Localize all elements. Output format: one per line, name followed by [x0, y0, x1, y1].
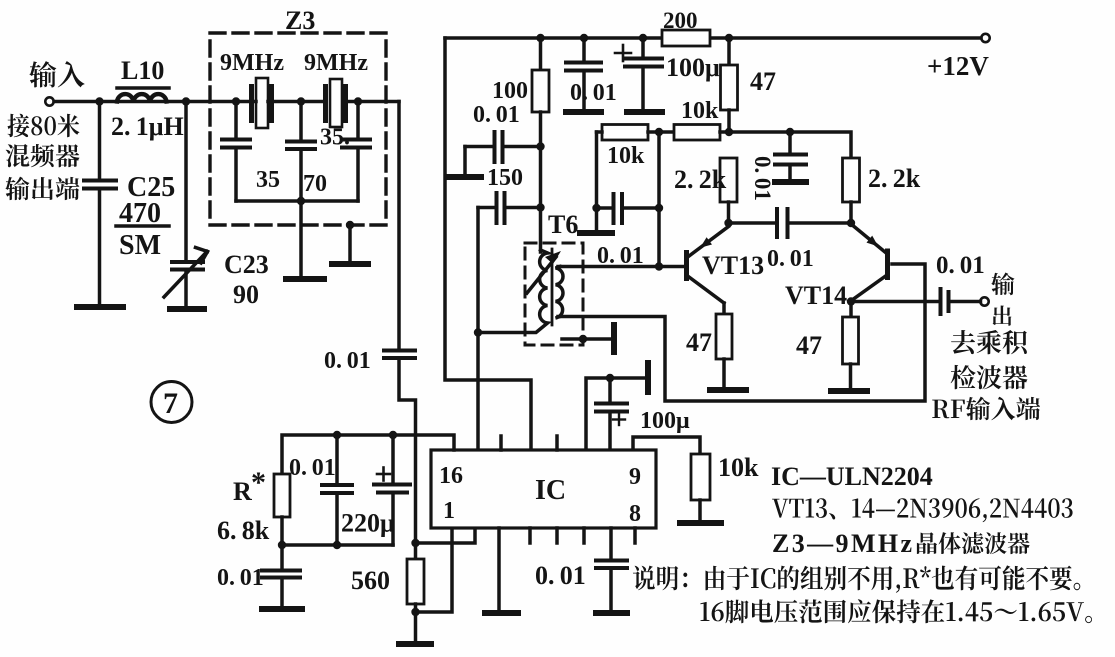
- capacitor 0.01 top shunt: [566, 38, 601, 110]
- svg-text:2. 2k: 2. 2k: [868, 164, 921, 193]
- ground capA: [447, 174, 481, 180]
- ground C25: [77, 304, 123, 310]
- pin stub top2: [555, 436, 559, 450]
- ground 560: [399, 641, 431, 647]
- wire secondary bottom loop to VT14 base: [558, 264, 925, 401]
- wire cap378 node: [586, 378, 645, 450]
- label VT13,14 line: [772, 498, 1073, 522]
- wire filter bottom to ground: [299, 201, 303, 277]
- node IN: input terminal: [45, 97, 53, 105]
- filter Z3 shield box: [210, 33, 386, 225]
- junction 560 bottom: [411, 608, 419, 616]
- resistor 100: [532, 38, 549, 252]
- junction 100/capA: [536, 142, 544, 150]
- svg-text:1: 1: [443, 498, 455, 524]
- ground 47 VT14: [831, 388, 867, 394]
- svg-text:8: 8: [629, 501, 641, 527]
- junction 10k node: [655, 128, 663, 136]
- svg-text:VT13: VT13: [702, 251, 764, 280]
- wire secondary top to VT13 base: [558, 265, 684, 269]
- svg-text:220μ: 220μ: [341, 509, 395, 538]
- capacitor 0.01 osc right: [597, 194, 660, 223]
- svg-text:T6: T6: [548, 210, 578, 239]
- svg-text:90: 90: [233, 280, 259, 309]
- fraction line 470/SM: [116, 224, 169, 228]
- capacitor 70 (middle): [287, 102, 315, 202]
- svg-text:0. 01: 0. 01: [535, 561, 586, 590]
- pin stub bottom3: [582, 528, 586, 543]
- wire bias column: [657, 132, 661, 267]
- svg-text:+12V: +12V: [927, 51, 989, 81]
- svg-text:0. 01: 0. 01: [324, 348, 371, 374]
- svg-text:IC—ULN2204: IC—ULN2204: [771, 462, 933, 491]
- junction rail 47: [725, 34, 733, 42]
- capacitor 0.01 IC bottom: [596, 528, 627, 611]
- capacitor 220u: [374, 435, 410, 545]
- svg-text:9: 9: [629, 464, 641, 490]
- inductor L10: [117, 94, 167, 101]
- label 去乘积: [951, 330, 1027, 354]
- resistor 10k right: [674, 125, 729, 141]
- resistor 2.2k left: [720, 158, 737, 223]
- node +12V terminal: [981, 34, 989, 42]
- svg-text:C23: C23: [224, 250, 269, 279]
- junction shield ground: [346, 221, 354, 229]
- capacitor 0.01 R-star: [322, 435, 352, 545]
- svg-text:VT14: VT14: [785, 281, 847, 310]
- svg-text:35.: 35.: [320, 125, 350, 151]
- capacitor 0.01 coupling: [729, 209, 852, 237]
- capacitor C23 variable: [164, 102, 208, 307]
- svg-text:2. 2k: 2. 2k: [674, 165, 727, 194]
- transformer T6 primary: [478, 250, 548, 333]
- wire +12V rail left: [445, 36, 662, 40]
- junction 560 top: [411, 539, 419, 547]
- svg-text:Z3: Z3: [285, 6, 315, 35]
- label RF输入端: [932, 397, 1040, 421]
- svg-text:47: 47: [686, 328, 712, 357]
- wire bias bottom bus: [282, 543, 393, 547]
- resistor 10k mid: [691, 454, 710, 521]
- junction bias VT13 base: [655, 262, 663, 270]
- wire Z3 output drop: [397, 102, 401, 350]
- junction rail 0.01: [580, 34, 588, 42]
- junction VT13 emitter: [724, 219, 732, 227]
- resistor 2.2k right: [843, 158, 860, 223]
- svg-text:100μ: 100μ: [666, 53, 720, 82]
- junction filter bottom: [297, 197, 305, 205]
- transformer T6 core: [551, 249, 554, 325]
- junction rail 0.01 R: [333, 431, 341, 439]
- svg-text:560: 560: [351, 566, 390, 595]
- junction bias capC: [655, 204, 663, 212]
- junction rail 100u: [639, 34, 647, 42]
- pin stub bottom1: [528, 528, 532, 543]
- pin stub bottom4: [633, 528, 637, 543]
- resistor 47 VT14: [843, 302, 859, 390]
- svg-text:IC: IC: [535, 475, 566, 506]
- label shuoming line: [633, 565, 1080, 592]
- junction crystal2 left: [297, 97, 305, 105]
- transformer T6 shield box: [525, 243, 583, 345]
- svg-text:470: 470: [119, 198, 161, 229]
- svg-text:*: *: [251, 466, 266, 499]
- wire collector rail VT13-VT14: [729, 132, 851, 158]
- svg-text:70: 70: [303, 171, 327, 197]
- wire 560 bottom to pin: [416, 528, 453, 612]
- wire IC ground pin: [497, 528, 501, 611]
- ground 10k left: [580, 230, 612, 236]
- label 输入: [29, 61, 84, 87]
- capacitor 0.01 bypass: [775, 132, 806, 180]
- resistor 47 VT13: [716, 314, 732, 388]
- svg-text:0. 01: 0. 01: [767, 246, 814, 272]
- capacitor 100u mid: [596, 378, 627, 450]
- junction VT14 emitter: [847, 219, 855, 227]
- capacitor 0.01 osc upper: [465, 132, 541, 175]
- capacitor 0.01 Z3 output: [384, 351, 416, 544]
- wire pin9 to 10k: [633, 437, 700, 454]
- label 检波器: [951, 365, 1028, 389]
- label 出: [993, 306, 1012, 326]
- junction bypass cap: [786, 128, 794, 136]
- junction input/C25: [95, 97, 103, 105]
- svg-text:SM: SM: [119, 230, 161, 261]
- svg-text:0. 01: 0. 01: [750, 156, 775, 201]
- wire capB down to pin: [476, 208, 480, 451]
- crystal Y1 9MHz: [249, 78, 274, 128]
- label 输: [991, 273, 1014, 296]
- resistor 560: [407, 543, 424, 642]
- wire T6 shield tap: [562, 337, 611, 341]
- junction L10/C23: [182, 97, 190, 105]
- svg-text:150: 150: [487, 165, 523, 191]
- ground bypass: [775, 179, 806, 185]
- transistor VT14: [851, 224, 890, 300]
- wire VT13 collector: [722, 303, 726, 314]
- junction cap3: [354, 97, 362, 105]
- junction rail 100: [536, 34, 544, 42]
- node output terminal: [980, 297, 988, 305]
- ground shield tap: [611, 325, 617, 352]
- svg-text:200: 200: [663, 8, 698, 33]
- capacitor 0.01 bias ground: [262, 545, 300, 607]
- svg-text:R: R: [233, 477, 252, 506]
- svg-text:47: 47: [750, 67, 776, 96]
- ground 10k mid: [680, 520, 721, 526]
- IC U1 box: [431, 450, 656, 528]
- ground 0.01 IC: [596, 610, 627, 616]
- figure number 7: [151, 382, 192, 423]
- svg-text:2. 1μH: 2. 1μH: [111, 112, 184, 141]
- ground IC pin: [485, 610, 518, 616]
- svg-text:47: 47: [796, 331, 822, 360]
- pin 16 stub: [499, 436, 503, 450]
- junction capC left: [592, 204, 600, 212]
- svg-text:Z3—9MHz: Z3—9MHz: [772, 529, 914, 558]
- label 混频器: [6, 144, 80, 167]
- resistor R-star 6.8k: [274, 474, 290, 545]
- junction 47/10k: [725, 128, 733, 136]
- ground 100u top: [627, 109, 662, 115]
- capacitor 35 (right): [342, 102, 370, 202]
- svg-text:0. 01: 0. 01: [597, 243, 644, 269]
- wire +12V rail right: [710, 36, 981, 40]
- wire crystal2 out: [348, 100, 399, 104]
- label 输出端: [5, 177, 79, 201]
- svg-text:10k: 10k: [607, 143, 645, 169]
- junction rail 220u: [389, 431, 397, 439]
- wire input to filter: [54, 100, 250, 104]
- svg-text:0. 01: 0. 01: [217, 565, 264, 591]
- wire R-star rail: [282, 435, 454, 474]
- ground 47 VT13: [710, 387, 746, 393]
- capacitor 150: [478, 193, 541, 223]
- svg-text:35: 35: [256, 167, 280, 193]
- svg-text:9MHz: 9MHz: [220, 50, 284, 76]
- ground filter: [286, 276, 324, 282]
- crystal Y2 9MHz: [323, 79, 348, 127]
- ground bias: [262, 606, 302, 612]
- ground shield: [332, 261, 368, 267]
- label pin16 line: [700, 599, 1092, 623]
- transformer T6 arrow: [527, 251, 561, 293]
- svg-text:0. 01: 0. 01: [473, 102, 520, 128]
- svg-text:100μ: 100μ: [640, 408, 690, 434]
- label 接80米: [8, 114, 80, 137]
- junction bus R-star: [278, 541, 286, 549]
- ground 0.01 top: [566, 109, 601, 115]
- svg-text:0. 01: 0. 01: [289, 455, 336, 481]
- svg-text:10k: 10k: [681, 98, 719, 124]
- wire shield to ground: [348, 225, 352, 262]
- junction cap378: [606, 374, 614, 382]
- transformer T6 secondary: [556, 267, 563, 319]
- svg-text:100: 100: [492, 78, 528, 104]
- svg-text:10k: 10k: [718, 453, 759, 482]
- wire filter caps bottom bus: [236, 199, 358, 203]
- resistor 10k left: [597, 125, 675, 232]
- svg-text:7: 7: [163, 387, 178, 420]
- junction T6 primary bottom: [474, 328, 482, 336]
- pin stub bottom2: [555, 528, 559, 543]
- wire 560 node to pin: [416, 528, 476, 543]
- junction shield tap: [579, 335, 587, 343]
- resistor 200: [662, 30, 710, 46]
- label line L10: [117, 86, 169, 90]
- junction 100/capB: [536, 203, 544, 211]
- capacitor 100u top: [615, 38, 662, 110]
- wire rail corner down: [445, 38, 531, 450]
- ground wire378: [645, 363, 651, 392]
- junction crystal1 left: [232, 97, 240, 105]
- transistor VT13: [684, 227, 729, 304]
- capacitor 35 (left): [222, 102, 250, 202]
- junction bus 0.01: [333, 541, 341, 549]
- svg-text:L10: L10: [121, 56, 164, 85]
- junction VT14 collector: [847, 297, 855, 305]
- capacitor 0.01 output: [851, 289, 981, 314]
- svg-text:0. 01: 0. 01: [936, 252, 985, 279]
- ground C23: [170, 306, 204, 312]
- svg-text:0. 01: 0. 01: [570, 80, 617, 106]
- capacitor C25: [84, 102, 116, 306]
- svg-text:16: 16: [439, 463, 463, 489]
- svg-text:9MHz: 9MHz: [304, 50, 368, 76]
- wire crystal1 to crystal2: [274, 100, 323, 104]
- resistor 47 top: [721, 38, 738, 132]
- svg-text:6. 8k: 6. 8k: [217, 516, 270, 545]
